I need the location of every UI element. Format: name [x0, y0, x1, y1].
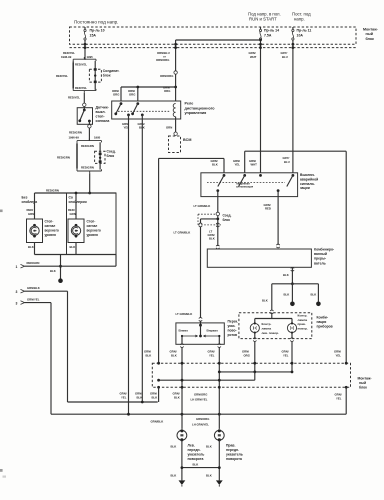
svg-text:BCM: BCM [183, 138, 191, 142]
svg-text:BLK: BLK [206, 473, 212, 477]
svg-text:RED/YEL: RED/YEL [75, 86, 87, 90]
svg-text:дистанционного: дистанционного [185, 106, 216, 110]
svg-text:зации: зации [300, 186, 310, 190]
svg-text:GRN/BLK: GRN/BLK [27, 286, 40, 290]
svg-text:7.5А: 7.5А [264, 33, 272, 37]
svg-text:BLK: BLK [70, 245, 76, 249]
svg-text:сигнал: сигнал [45, 224, 56, 228]
svg-text:RED/GRN: RED/GRN [81, 165, 94, 169]
svg-text:BLU: BLU [284, 160, 290, 164]
svg-text:YEL: YEL [209, 353, 215, 357]
svg-text:ORN/ORG: ORN/ORG [160, 74, 173, 78]
svg-text:Монтаж-: Монтаж- [358, 377, 372, 381]
svg-text:передн.: передн. [226, 448, 239, 452]
svg-text:стоп-: стоп- [96, 115, 106, 119]
svg-text:RED/GRN: RED/GRN [27, 261, 40, 265]
svg-text:LT GRN/BLK: LT GRN/BLK [176, 312, 193, 316]
svg-text:напр.: напр. [294, 17, 305, 22]
svg-text:ORG: ORG [113, 92, 119, 96]
svg-text:15А: 15А [90, 33, 97, 37]
svg-text:выкл.: выкл. [96, 110, 106, 114]
svg-text:3: 3 [16, 290, 18, 294]
svg-text:аварийной: аварийной [300, 177, 318, 181]
svg-text:RED/GRN: RED/GRN [81, 144, 94, 148]
svg-text:LT GRN/BLK: LT GRN/BLK [194, 204, 211, 208]
svg-text:BLK: BLK [311, 293, 317, 297]
svg-text:Соед.: Соед. [107, 150, 116, 154]
svg-text:RED/YEL: RED/YEL [56, 74, 68, 78]
svg-text:BLK: BLK [50, 269, 56, 273]
svg-text:ORG: ORG [129, 92, 135, 96]
svg-text:повор.: повор. [298, 327, 308, 331]
svg-text:Пр-ль 11: Пр-ль 11 [297, 29, 312, 33]
svg-text:Пр-ль 14: Пр-ль 14 [264, 29, 279, 33]
svg-text:BLK: BLK [284, 293, 290, 297]
svg-text:лев. повор.: лев. повор. [262, 331, 280, 335]
svg-text:GRN: GRN [70, 212, 76, 216]
svg-text:уровня: уровня [45, 233, 57, 237]
svg-text:блок: блок [103, 74, 111, 78]
svg-text:BLK: BLK [212, 162, 218, 166]
svg-text:RUN и START: RUN и START [249, 17, 277, 22]
svg-text:Влево: Влево [179, 329, 189, 333]
svg-text:1995: 1995 [94, 135, 101, 139]
svg-text:Монтаж-: Монтаж- [363, 28, 379, 32]
svg-text:Соед.: Соед. [223, 214, 232, 218]
svg-text:LT GRN/BLK: LT GRN/BLK [174, 230, 191, 234]
svg-text:BLK: BLK [262, 299, 268, 303]
svg-text:RED/GRN: RED/GRN [57, 156, 70, 160]
svg-text:Лев.: Лев. [188, 444, 195, 448]
svg-text:Вправо: Вправо [207, 329, 219, 333]
svg-text:указ.: указ. [228, 324, 236, 328]
svg-text:сигнал: сигнал [87, 224, 98, 228]
svg-text:пово-: пово- [228, 329, 237, 333]
svg-text:BLK: BLK [171, 445, 177, 449]
svg-text:ORG: ORG [164, 89, 170, 93]
svg-text:спойлером: спойлером [69, 200, 88, 204]
svg-text:ватель: ватель [314, 261, 326, 265]
svg-text:Комбиниро-: Комбиниро- [314, 248, 334, 252]
svg-text:RED/YEL: RED/YEL [68, 95, 80, 99]
svg-text:YEL: YEL [121, 395, 127, 399]
svg-text:преры-: преры- [314, 257, 326, 261]
svg-text:WHT: WHT [250, 55, 257, 59]
svg-text:блок: блок [359, 386, 367, 390]
svg-text:верхнего: верхнего [45, 229, 59, 233]
svg-text:ORN/ORG: ORN/ORG [156, 58, 169, 62]
svg-text:BLK: BLK [28, 245, 34, 249]
svg-text:BLK: BLK [146, 353, 152, 357]
svg-text:RED/GRN: RED/GRN [46, 189, 59, 193]
svg-text:GRN/ORG: GRN/ORG [196, 417, 209, 421]
svg-text:поворота: поворота [188, 457, 204, 461]
svg-text:LH GRN/YEL: LH GRN/YEL [191, 398, 208, 402]
svg-text:передн.: передн. [188, 448, 201, 452]
svg-text:приборов: приборов [317, 325, 333, 329]
svg-text:GRN/BLK: GRN/BLK [151, 420, 164, 424]
svg-text:Перек.: Перек. [228, 320, 239, 324]
svg-text:GRN/ORG: GRN/ORG [194, 393, 207, 397]
svg-text:Соединит.: Соединит. [103, 69, 120, 73]
svg-text:Комби-: Комби- [317, 316, 329, 320]
svg-text:BLK: BLK [152, 395, 158, 399]
svg-text:BLK: BLK [209, 237, 215, 241]
svg-text:1: 1 [16, 265, 18, 269]
svg-text:Реле: Реле [185, 102, 194, 106]
svg-text:сигнали-: сигнали- [300, 182, 315, 186]
svg-text:сигнала: сигнала [96, 119, 110, 123]
svg-text:Прав.: Прав. [226, 444, 235, 448]
svg-text:10А: 10А [297, 33, 304, 37]
svg-text:RED/YEL: RED/YEL [75, 63, 87, 67]
svg-text:Стоп-: Стоп- [45, 220, 54, 224]
svg-text:1996-99: 1996-99 [61, 55, 72, 59]
svg-text:BLK: BLK [171, 473, 177, 477]
svg-text:уровня: уровня [87, 233, 99, 237]
svg-text:Постоянно под напр.: Постоянно под напр. [74, 20, 118, 25]
svg-text:нация: нация [317, 320, 327, 324]
svg-text:BLK: BLK [174, 395, 180, 399]
svg-text:верхнего: верхнего [87, 229, 101, 233]
svg-text:3: 3 [16, 301, 18, 305]
svg-text:YEL: YEL [235, 162, 241, 166]
svg-text:управления: управления [185, 111, 207, 115]
svg-text:YEL: YEL [336, 353, 342, 357]
svg-text:ный: ный [366, 32, 373, 36]
svg-text:YEL: YEL [336, 397, 342, 401]
svg-text:блок: блок [107, 154, 115, 158]
svg-text:GRN/YEL: GRN/YEL [27, 298, 40, 302]
svg-text:ванный: ванный [314, 252, 327, 256]
svg-text:GRN: GRN [28, 212, 34, 216]
svg-text:BLK: BLK [283, 273, 289, 277]
svg-text:BLK: BLK [137, 395, 143, 399]
svg-text:сигнализация: сигнализация [236, 186, 254, 189]
svg-text:BLK: BLK [171, 353, 177, 357]
svg-text:ORN: ORN [166, 126, 172, 130]
svg-text:блок: блок [366, 37, 375, 41]
svg-text:ротов: ротов [228, 333, 238, 337]
svg-text:ный: ный [359, 381, 366, 385]
svg-text:LH GRN/YEL: LH GRN/YEL [192, 422, 209, 426]
svg-text:указатель: указатель [226, 453, 243, 457]
svg-text:BLK: BLK [206, 445, 212, 449]
svg-text:Пр-ль 10: Пр-ль 10 [90, 29, 105, 33]
svg-text:BLU: BLU [282, 55, 288, 59]
svg-text:Без: Без [22, 196, 28, 200]
svg-text:Стоп-: Стоп- [87, 220, 96, 224]
svg-text:1996-99: 1996-99 [69, 135, 80, 139]
svg-text:YEL: YEL [283, 353, 289, 357]
svg-text:Выключ.: Выключ. [300, 173, 315, 177]
svg-text:BLK: BLK [193, 462, 199, 466]
svg-text:RED: RED [265, 206, 271, 210]
svg-text:RED/GRN: RED/GRN [69, 130, 82, 134]
svg-text:ORG: ORG [244, 353, 250, 357]
svg-text:поворота: поворота [226, 457, 242, 461]
svg-text:WHT: WHT [251, 162, 258, 166]
svg-text:Датчик-: Датчик- [96, 106, 110, 110]
svg-text:указатель: указатель [188, 453, 205, 457]
svg-text:Со: Со [69, 196, 73, 200]
svg-text:блок: блок [223, 218, 231, 222]
svg-text:1995: 1995 [87, 55, 94, 59]
